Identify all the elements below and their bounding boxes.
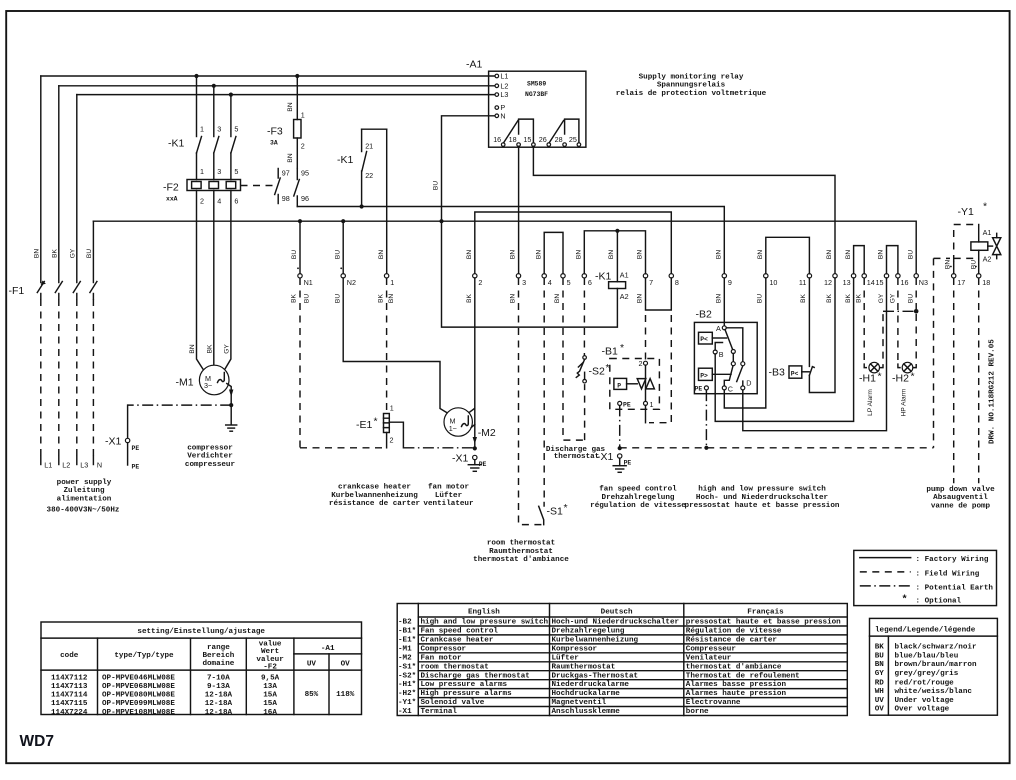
svg-text:Verdichter: Verdichter [187,453,233,461]
svg-text:BK: BK [206,344,213,353]
svg-text:-M1: -M1 [398,645,412,653]
svg-text:Kurbelwannenheizung: Kurbelwannenheizung [331,492,418,500]
svg-text:*: * [878,371,882,383]
svg-text:7-10A: 7-10A [207,674,230,682]
svg-text:21: 21 [365,142,373,151]
svg-text:thermostat: thermostat [554,453,600,461]
svg-text:Lüfter: Lüfter [435,492,463,500]
svg-text:Zuleitung: Zuleitung [63,487,104,495]
svg-text:1~: 1~ [449,424,457,433]
svg-text:N: N [500,111,505,120]
wire A1:15 to terminal 12 [533,146,835,273]
node junction L1-F3 [295,74,299,78]
svg-text:BU: BU [334,250,341,259]
svg-text:BK: BK [856,294,863,303]
wire supply L3 drop [76,95,78,457]
wire terminal 2 to fan motor M2 [470,278,475,447]
svg-text:BU: BU [291,250,298,259]
svg-text:5: 5 [567,278,571,287]
svg-text:BN: BN [875,661,885,669]
svg-text:BN: BN [510,294,517,303]
svg-text:N1: N1 [304,278,313,287]
svg-text:BK: BK [875,644,885,652]
svg-text:: Potential Earth: : Potential Earth [916,584,994,592]
wire K1aux to terminal 1 [386,129,388,273]
contact F2 aux 97/98 [241,169,290,204]
svg-text:-E1*: -E1* [398,637,416,645]
svg-text:OP-MPVE099MLW08E: OP-MPVE099MLW08E [102,700,175,708]
field wiring drop from Y1 [933,258,935,447]
svg-text:pump down valve: pump down valve [926,486,995,494]
legend colour codes box [870,618,998,715]
label discharge gas thermostat [546,446,606,461]
svg-text:BN: BN [637,294,644,303]
A1 relay changeover contacts [493,119,581,146]
svg-text:4: 4 [548,278,552,287]
svg-text:13: 13 [843,278,851,287]
svg-text:BU: BU [757,294,764,303]
svg-text:D: D [746,379,751,388]
svg-text:2: 2 [301,142,305,151]
wire N1 field drop [299,278,301,448]
svg-text:6: 6 [234,197,238,206]
svg-text:UV: UV [875,697,885,705]
label supply monitoring relay [616,74,767,98]
svg-text:-K1: -K1 [595,271,612,283]
node junction L2-K1 [212,84,216,88]
svg-text:7: 7 [649,278,653,287]
svg-text:-X1: -X1 [398,708,412,716]
svg-text:98: 98 [282,194,290,203]
svg-text:GY: GY [223,344,230,354]
wire terminal N2 to fan motor M2 [343,278,446,413]
svg-text:-B3: -B3 [769,367,786,379]
wire bracket terminals 10-11 [766,237,810,273]
svg-text:Anschlussklemme: Anschlussklemme [552,708,621,716]
svg-text:BN: BN [757,250,764,259]
translation table rows [398,619,847,717]
svg-text:26: 26 [539,135,547,144]
svg-text:12-18A: 12-18A [205,692,233,700]
svg-text:: Optional: : Optional [916,598,962,606]
svg-text:Supply monitoring relay: Supply monitoring relay [639,74,744,82]
svg-text:BN: BN [576,250,583,259]
svg-text:BK: BK [800,294,807,303]
solenoid valve Y1 [934,201,1001,274]
svg-text:brown/braun/marron: brown/braun/marron [895,661,977,669]
svg-text:code: code [60,652,79,660]
svg-text:-E1: -E1 [356,419,373,431]
contactor K1 aux contact 21/22 [337,129,387,206]
svg-text:GY: GY [878,293,885,303]
svg-text:Over voltage: Over voltage [895,706,950,714]
pressure switch B3 [769,278,836,393]
svg-text:-S1: -S1 [547,506,564,518]
svg-text:4: 4 [217,197,221,206]
svg-text:Bereich: Bereich [202,652,234,660]
svg-text:Français: Français [747,609,784,617]
wire L2 bus [59,85,495,87]
svg-text:SM589: SM589 [527,81,546,88]
svg-text:borne: borne [686,708,709,716]
pressure switch B2 [694,278,757,394]
svg-text:L1: L1 [44,461,52,470]
svg-text:15A: 15A [263,700,277,708]
svg-text:-M1: -M1 [176,377,194,389]
svg-text:compresseur: compresseur [185,461,236,469]
svg-text:GY: GY [875,670,885,678]
alarm lamp H2 [892,278,916,416]
svg-text:3A: 3A [270,140,278,147]
fuse-switch F1 [9,281,97,298]
svg-text:RD: RD [875,679,885,687]
svg-text:BK: BK [377,294,384,303]
svg-text:97: 97 [282,169,290,178]
svg-text:BU: BU [432,181,439,190]
svg-text:-X1: -X1 [597,451,614,463]
risers above terminals N1 N2 [300,221,343,273]
svg-text:-S1*: -S1* [398,663,416,671]
svg-text:Absaugventil: Absaugventil [933,494,988,502]
label room thermostat [473,540,569,564]
svg-text:-H1*: -H1* [398,681,416,689]
svg-text:BU: BU [334,294,341,303]
svg-text:N: N [97,461,102,470]
svg-text:BN: BN [845,250,852,259]
svg-text:1: 1 [650,400,654,409]
svg-text:-H2: -H2 [892,373,909,385]
svg-text:PE: PE [695,386,703,393]
svg-text:BN: BN [189,344,196,353]
svg-text:Spannungsrelais: Spannungsrelais [657,82,726,90]
svg-text:BN: BN [826,250,833,259]
potential earth B2 PE [704,390,708,450]
label pump down valve [926,486,995,510]
svg-text:-K1: -K1 [168,138,185,150]
svg-text:-F2: -F2 [163,182,179,194]
svg-text:WH: WH [875,688,885,696]
svg-text:BN: BN [716,294,723,303]
svg-text:-X1: -X1 [105,436,122,448]
svg-text:114X7224: 114X7224 [51,709,88,717]
svg-text:12-18A: 12-18A [205,700,233,708]
svg-text:GY: GY [70,248,77,258]
svg-text:BN: BN [945,260,952,269]
svg-text:10: 10 [769,278,777,287]
svg-text:domaine: domaine [202,660,234,668]
svg-text:*: * [983,201,987,213]
alarm lamp H1 [859,278,883,416]
svg-text:room thermostat: room thermostat [487,540,555,548]
svg-text:OP-MPVE068MLW08E: OP-MPVE068MLW08E [102,683,175,691]
svg-text:-H1: -H1 [859,373,876,385]
svg-text:-B1: -B1 [602,346,619,358]
svg-text:*: * [606,362,610,374]
svg-text:: Factory Wiring: : Factory Wiring [916,556,989,564]
svg-text:28: 28 [555,135,563,144]
scan specks [297,266,977,270]
ground symbol M1 [226,403,237,431]
svg-text:A2: A2 [983,255,992,264]
svg-text:25: 25 [569,135,577,144]
svg-text:PE: PE [623,402,631,409]
svg-text:-Y1*: -Y1* [398,699,416,707]
svg-text:compressor: compressor [187,445,233,453]
svg-text:1: 1 [200,167,204,176]
svg-text:1: 1 [390,404,394,413]
svg-text:BN: BN [388,294,395,303]
label drawing number [989,339,997,444]
svg-text:6: 6 [588,278,592,287]
label fan speed control [590,486,686,510]
svg-text:GY: GY [889,293,896,303]
wire supply L2 drop [58,86,60,457]
svg-text:Électrovanne: Électrovanne [686,698,741,707]
wire B2:C to terminal 10 [724,278,766,408]
contactor K1 main contacts [168,76,238,180]
svg-text:alimentation: alimentation [57,495,112,503]
svg-text:C: C [728,385,733,394]
svg-text:A1: A1 [983,228,992,237]
svg-text:3: 3 [217,125,221,134]
node junctions on N line [298,219,444,223]
svg-text:BN: BN [510,250,517,259]
label compressor [185,445,236,469]
svg-text:L2: L2 [500,81,508,90]
wire bracket terminals 6-7 with coil tap [584,229,645,274]
svg-text:-F1: -F1 [9,285,25,297]
svg-text:Deutsch: Deutsch [601,609,633,617]
svg-text:-A1: -A1 [466,59,483,71]
legend wiring types box [854,550,997,605]
svg-text:*: * [620,342,624,354]
svg-text:3: 3 [217,167,221,176]
label crankcase heater [329,484,421,508]
svg-text:-H2*: -H2* [398,690,416,698]
svg-text:OP-MPVE080MLW08E: OP-MPVE080MLW08E [102,692,175,700]
svg-text:ventilateur: ventilateur [423,500,474,508]
wire bracket terminals 4-5 [544,232,563,273]
wire N line [93,221,916,273]
svg-text:LP Alarm: LP Alarm [867,389,874,416]
svg-text:P: P [617,382,621,389]
svg-text:OV: OV [341,660,351,668]
svg-text:-F2: -F2 [263,663,277,671]
svg-text:résistance de carter: résistance de carter [329,500,421,508]
svg-text:12: 12 [824,278,832,287]
svg-text:1: 1 [390,278,394,287]
settings table [41,622,362,717]
svg-text:BN: BN [554,294,561,303]
svg-text:8: 8 [675,278,679,287]
svg-text:WD7: WD7 [20,733,54,750]
svg-text:OP-MPVE046MLW08E: OP-MPVE046MLW08E [102,674,175,682]
svg-text:Terminal: Terminal [421,708,458,716]
svg-text:15: 15 [523,135,531,144]
wire bracket terminals 7-8 below [646,278,672,310]
wire supply N drop [92,221,94,457]
svg-text:95: 95 [301,169,309,178]
svg-text:crankcase heater: crankcase heater [338,484,411,492]
terminal X1 PE at B1 [597,405,631,472]
svg-text:*: * [374,416,378,428]
svg-text:114X7115: 114X7115 [51,700,88,708]
terminal ticks L1 L2 L3 N [41,457,102,470]
node junction L1-K1 [194,74,198,78]
svg-text:black/schwarz/noir: black/schwarz/noir [895,644,977,652]
label fan motor [423,484,474,508]
overload relay F2 [163,180,241,206]
potential earth link to X1 [128,405,232,438]
svg-text:BK: BK [845,294,852,303]
wire color labels above terminal row [291,250,914,259]
wire L3 bus [77,94,495,96]
svg-text:2: 2 [478,278,482,287]
node junction control/K1aux [360,204,364,208]
wire bracket terminals 13-14 [854,246,865,274]
svg-text:Under voltage: Under voltage [895,697,955,705]
wire A1:18 to terminal 3 [518,146,520,273]
svg-text:2: 2 [390,436,394,445]
svg-text:17: 17 [957,278,965,287]
svg-text:L3: L3 [500,90,508,99]
svg-text:N2: N2 [347,278,356,287]
svg-text:pressostat haute et basse pres: pressostat haute et basse pression [685,502,840,510]
svg-text:DRW. NO.118RG212 REV.05: DRW. NO.118RG212 REV.05 [989,339,997,444]
svg-text:PE: PE [132,445,140,452]
svg-text:high and low pressure switch: high and low pressure switch [698,486,826,494]
svg-text:18: 18 [982,278,990,287]
svg-text:BK: BK [826,294,833,303]
svg-text:power supply: power supply [57,479,112,487]
svg-text:BU: BU [875,653,885,661]
svg-text:BN: BN [716,250,723,259]
svg-text:5: 5 [234,167,238,176]
supply monitoring relay A1 box [466,59,586,148]
svg-text:-M2: -M2 [398,654,412,662]
svg-text:BK: BK [291,294,298,303]
wire color labels below terminal row [291,293,915,303]
svg-text:P>: P> [700,373,708,380]
wire L1 bus [41,75,495,77]
motor M1 [176,365,234,425]
svg-text:P<: P< [700,336,708,343]
svg-text:L1: L1 [500,72,508,81]
fan speed control B1 [602,315,672,423]
wire bracket terminal2 to terminal8 [475,212,672,274]
svg-text:2: 2 [639,359,643,368]
svg-text:BN: BN [878,250,885,259]
svg-text:-B1*: -B1* [398,628,416,636]
svg-text:legend/Legende/légende: legend/Legende/légende [875,627,976,635]
svg-text:12-18A: 12-18A [205,709,233,717]
wire bracket terminals 15-16 [887,246,898,274]
wire supply L1 drop [40,76,42,457]
svg-text:grey/grey/gris: grey/grey/gris [895,670,959,678]
fan motor M2 [444,408,496,444]
svg-text:-A1: -A1 [321,645,335,653]
svg-text:16A: 16A [263,709,277,717]
svg-text:BN: BN [34,249,41,258]
svg-text:English: English [468,609,500,617]
svg-text:-S2*: -S2* [398,672,416,680]
terminal X1 PE left [105,436,139,471]
svg-text:118%: 118% [336,691,355,699]
svg-text:BK: BK [52,249,59,258]
svg-text:380-400V3N~/50Hz: 380-400V3N~/50Hz [47,507,120,515]
svg-text:setting/Einstellung/ajustage: setting/Einstellung/ajustage [137,628,265,636]
svg-text:L3: L3 [80,461,88,470]
svg-text:-X1: -X1 [452,453,469,465]
svg-text:9,5A: 9,5A [261,674,280,682]
svg-text:16: 16 [493,135,501,144]
svg-text:*: * [564,502,568,514]
svg-text:2: 2 [200,197,204,206]
svg-text:A1: A1 [620,271,629,280]
field wiring below terminals 17 18 [954,278,979,483]
svg-text:15A: 15A [263,692,277,700]
label power supply [47,479,120,515]
svg-text:-M2: -M2 [478,427,496,439]
svg-text:thermostat d'ambiance: thermostat d'ambiance [473,556,569,564]
svg-text:BN: BN [637,250,644,259]
svg-text:PE: PE [132,464,140,471]
svg-text:3: 3 [522,278,526,287]
sheet name WD7 [20,733,54,750]
svg-text:9-13A: 9-13A [207,683,230,691]
wire color labels at F1 [34,248,94,258]
svg-text:15: 15 [876,278,884,287]
svg-text:blue/blau/bleu: blue/blau/bleu [895,653,959,661]
svg-text:9: 9 [728,278,732,287]
svg-text:HP Alarm: HP Alarm [900,388,907,416]
svg-text:14: 14 [867,278,875,287]
svg-text:*: * [911,371,915,383]
wire A1 N to junction [432,116,495,221]
contact F2 aux 95/96 [294,169,309,207]
svg-text:BU: BU [86,249,93,258]
label high and low pressure switch [685,486,840,510]
svg-text:BN: BN [287,102,294,111]
svg-text:OV: OV [875,706,885,714]
svg-text:-S2: -S2 [589,366,606,378]
svg-text:BN: BN [378,250,385,259]
fuse F3 [267,76,305,169]
crankcase heater E1 [356,278,403,448]
svg-text:vanne de pomp: vanne de pomp [931,502,991,510]
field wiring bottom bus [300,447,934,449]
node junction L3-K1 [229,93,233,97]
svg-text:114X7113: 114X7113 [51,683,88,691]
svg-text:N3: N3 [919,278,928,287]
svg-text:BU: BU [970,260,977,269]
svg-text:: Field Wiring: : Field Wiring [916,570,980,578]
svg-text:OP-MPVE108MLW08E: OP-MPVE108MLW08E [102,709,175,717]
svg-text:114X7112: 114X7112 [51,674,88,682]
svg-text:UV: UV [307,660,317,668]
wires F2 to motor M1 [189,191,231,372]
wire lamp return to N3 [883,278,919,314]
svg-text:-B2: -B2 [696,309,713,321]
svg-text:Hoch- und Niederdruckschalter: Hoch- und Niederdruckschalter [696,494,829,502]
svg-text:xxA: xxA [166,196,178,203]
svg-text:BU: BU [907,250,914,259]
svg-text:BK: BK [466,294,473,303]
svg-text:BN: BN [608,250,615,259]
svg-text:type/Typ/type: type/Typ/type [114,652,174,660]
svg-text:13A: 13A [263,683,277,691]
svg-text:fan motor: fan motor [428,484,469,492]
